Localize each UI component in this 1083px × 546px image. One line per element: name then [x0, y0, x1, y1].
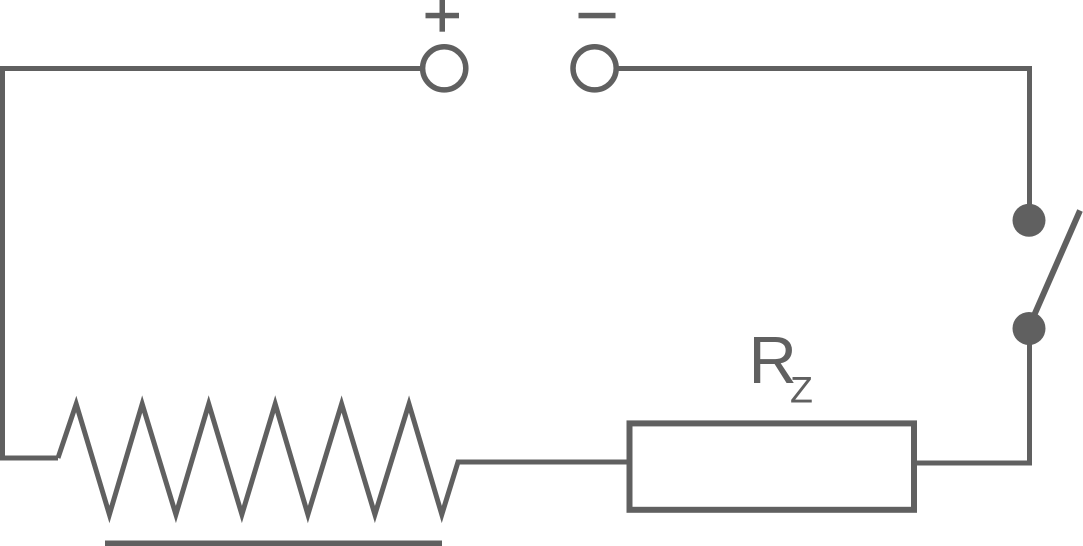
rheostat R (zigzag resistor) with right lead to Rz [58, 404, 627, 515]
switch S: bottom contact dot [1013, 312, 1046, 345]
switch S: blade (open) [1029, 211, 1080, 328]
node + terminal circle [423, 47, 466, 90]
wire: - terminal right along top, down right side to switch [619, 69, 1030, 207]
node - terminal circle [573, 47, 616, 90]
rheostat track bar [105, 541, 442, 546]
node + label (plus sign) [426, 0, 460, 32]
svg-text:Z: Z [790, 368, 813, 410]
node - label (minus sign) [579, 13, 616, 18]
wire: switch down, left to resistor Rz [917, 343, 1030, 463]
switch S: top contact dot [1013, 204, 1046, 237]
resistor Rz (box) [630, 423, 915, 509]
wire: battery + terminal to left edge, down left side to rheostat lead [3, 69, 422, 459]
